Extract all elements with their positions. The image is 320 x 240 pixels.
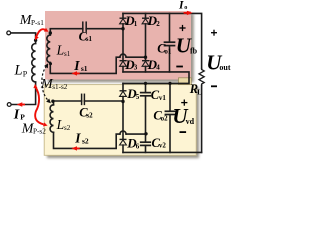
capacitor Cs1: [83, 22, 86, 31]
shaded cell: vd (yellow) box: [44, 85, 196, 156]
svg-text:s2: s2: [86, 111, 93, 119]
diode D2: [142, 18, 149, 24]
capacitor Co2: [169, 83, 171, 111]
load right wire: [201, 86, 203, 153]
node dot Ls2 top: [51, 100, 54, 103]
node dot Lp top: [34, 39, 37, 42]
node T2 dot: [144, 132, 147, 135]
inductor Ls1: [47, 35, 50, 63]
svg-text:L: L: [197, 89, 202, 97]
wire hop over leg1: [120, 54, 126, 57]
svg-text:L: L: [56, 43, 65, 58]
terminal bottom: [7, 103, 11, 107]
wire s1 top right of Cs1: [86, 28, 123, 30]
svg-text:s1-s2: s1-s2: [52, 83, 68, 91]
wire to node T2: [126, 133, 145, 135]
vd bottom rail: [123, 151, 202, 153]
svg-text:3: 3: [134, 64, 138, 72]
wire s1 top: [50, 29, 83, 35]
svg-text:P-s2: P-s2: [33, 128, 46, 136]
diode D1: [120, 18, 127, 24]
wire hop over D-leg: [120, 131, 126, 134]
svg-text:s1: s1: [86, 35, 93, 43]
fb bridge leg2: [145, 13, 147, 18]
svg-text:6: 6: [136, 142, 140, 150]
capacitor Co1: [169, 13, 171, 42]
svg-text:2: 2: [156, 20, 160, 28]
mutual coupling arrow M_p-s1 (red): [36, 29, 46, 37]
node Co2 top dot: [168, 82, 171, 85]
svg-text:P-s1: P-s1: [31, 19, 44, 27]
shaded cell: vd (yellow) drop shadow: [47, 87, 199, 158]
svg-text:o2: o2: [161, 115, 169, 123]
node Cv1 top dot: [144, 82, 147, 85]
fb top rail: [123, 13, 202, 68]
fb bridge leg1: [122, 13, 124, 18]
shaded cell: fb (pink) box: [45, 11, 191, 80]
node T1 dot: [121, 100, 124, 103]
svg-text:v2: v2: [159, 142, 167, 150]
resistor RL zigzag: [199, 69, 204, 86]
mutual coupling arrow M_p-s2 (red): [35, 87, 43, 125]
label U_vd with +/-: [181, 100, 187, 106]
svg-text:4: 4: [156, 64, 160, 72]
current arrow Is1 (red): [71, 71, 77, 75]
svg-text:vd: vd: [186, 117, 195, 126]
inductor Lp: [32, 44, 36, 82]
inductor Ls2: [50, 105, 53, 133]
svg-text:out: out: [219, 63, 230, 72]
svg-text:I: I: [74, 131, 81, 146]
vd D-leg: [122, 83, 124, 90]
svg-text:s1: s1: [64, 50, 71, 58]
wire s1 bottom: [50, 57, 120, 73]
svg-text:1: 1: [134, 20, 138, 28]
svg-text:s2: s2: [82, 137, 89, 146]
svg-text:s2: s2: [64, 124, 71, 132]
wire s2 top: [54, 101, 82, 105]
wire s2 bottom: [54, 132, 120, 148]
diode D3: [120, 61, 127, 67]
svg-text:P: P: [23, 70, 28, 79]
primary bottom wire: [11, 82, 35, 105]
mutual coupling arrow M_s1-s2 (dashed): [42, 66, 49, 102]
svg-text:L: L: [56, 117, 65, 132]
svg-text:s1: s1: [81, 64, 88, 73]
yellow box corner patch: [179, 78, 192, 85]
diode D6: [120, 139, 127, 145]
svg-text:o: o: [184, 4, 187, 11]
current arrow Ip (red): [17, 102, 23, 106]
node AC2 dot: [144, 56, 147, 59]
svg-text:o1: o1: [164, 48, 172, 56]
capacitor Cs2: [82, 94, 85, 104]
vd Cv-leg with Cv1 and Cv2: [145, 83, 147, 92]
svg-text:5: 5: [136, 93, 140, 101]
current arrow Is2 (red): [71, 146, 77, 150]
svg-text:v1: v1: [159, 94, 167, 102]
svg-text:I: I: [13, 107, 20, 122]
node dot Ls1 bottom: [49, 62, 52, 65]
svg-text:P: P: [20, 113, 25, 122]
svg-text:I: I: [178, 0, 184, 11]
svg-text:fb: fb: [190, 46, 198, 55]
primary top wire: [11, 33, 36, 44]
svg-text:L: L: [14, 63, 23, 79]
node AC1 dot: [121, 27, 124, 30]
shaded cell: fb (pink) drop shadow: [48, 14, 194, 83]
label U_fb with +/-: [179, 25, 185, 31]
fb bottom rail to series node: [123, 72, 189, 84]
svg-text:I: I: [73, 58, 80, 73]
label U_out with +/-: [211, 30, 217, 36]
diode D4: [142, 61, 149, 67]
terminal top: [7, 31, 11, 35]
diode D5: [120, 91, 127, 97]
current arrow Io (red): [187, 11, 193, 15]
node dot Ls1 top: [49, 31, 52, 34]
wire to node AC2: [126, 56, 145, 58]
